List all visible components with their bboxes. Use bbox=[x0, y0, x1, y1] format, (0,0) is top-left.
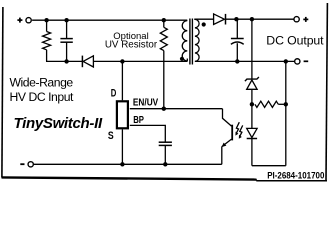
svg-text:UV Resistor: UV Resistor bbox=[105, 40, 158, 51]
svg-text:PI-2684-101700: PI-2684-101700 bbox=[267, 171, 324, 181]
svg-text:Wide-Range: Wide-Range bbox=[10, 75, 74, 89]
svg-text:TinySwitch-II: TinySwitch-II bbox=[14, 115, 103, 132]
svg-text:HV DC Input: HV DC Input bbox=[10, 90, 75, 104]
svg-text:BP: BP bbox=[133, 115, 144, 126]
svg-text:DC Output: DC Output bbox=[266, 33, 324, 47]
svg-text:EN/UV: EN/UV bbox=[133, 98, 158, 109]
svg-text:D: D bbox=[111, 88, 117, 100]
svg-text:S: S bbox=[108, 130, 114, 142]
